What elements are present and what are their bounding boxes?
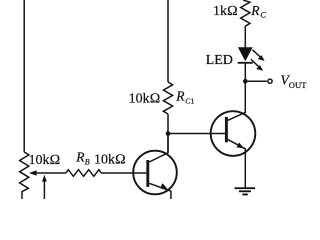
- wire RB to Q1 base: [101, 172, 146, 174]
- wire junction to Q2 base: [168, 133, 225, 135]
- svg-text:1: 1: [191, 97, 195, 106]
- svg-text:LED: LED: [206, 53, 233, 68]
- LED emission arrow 2: [251, 59, 263, 71]
- wire RC to LED: [244, 26, 246, 48]
- LED cathode bar: [238, 62, 253, 64]
- svg-text:R: R: [75, 150, 85, 165]
- wire middle rail: [167, 0, 169, 82]
- ground: [235, 187, 256, 195]
- svg-text:10kΩ: 10kΩ: [29, 153, 61, 168]
- adjustment arrow (vertical, points up at wire, cut off at bottom): [42, 175, 47, 199]
- wire left supply rail: [23, 0, 25, 152]
- LED D1 (anode triangle): [238, 47, 253, 61]
- svg-text:C: C: [260, 10, 266, 20]
- svg-text:OUT: OUT: [289, 80, 307, 90]
- svg-text:1kΩ: 1kΩ: [213, 4, 238, 19]
- transistor Q1: [133, 136, 177, 199]
- resistor RC1 zigzag: [163, 82, 172, 114]
- potentiometer 10kΩ (resistor body): [20, 152, 29, 191]
- wire RC1 to junction: [167, 114, 169, 153]
- svg-text:10kΩ: 10kΩ: [94, 153, 126, 168]
- Q2 collector: [228, 83, 245, 120]
- LED emission arrow 1: [252, 50, 264, 61]
- svg-text:R: R: [250, 3, 260, 18]
- wire pot bottom lead: [21, 191, 23, 199]
- Q1 collector: [149, 136, 168, 162]
- resistor RB zigzag: [66, 170, 101, 177]
- node junction Q1 collector / Q2 base: [166, 131, 171, 136]
- wire LED cathode to output node: [244, 64, 246, 83]
- wire to output terminal: [245, 80, 266, 82]
- Q1 emitter: [149, 183, 171, 199]
- svg-text:B: B: [85, 157, 90, 166]
- Q2 emitter: [228, 140, 245, 188]
- resistor RC zigzag (cut off at top): [241, 0, 250, 26]
- node output junction: [243, 79, 248, 84]
- svg-text:10kΩ: 10kΩ: [129, 92, 161, 107]
- pot wiper arrow (points left into resistor): [29, 170, 66, 175]
- terminal VOUT (open circle): [268, 79, 272, 83]
- svg-text:R: R: [175, 89, 185, 104]
- transistor Q2: [211, 83, 256, 188]
